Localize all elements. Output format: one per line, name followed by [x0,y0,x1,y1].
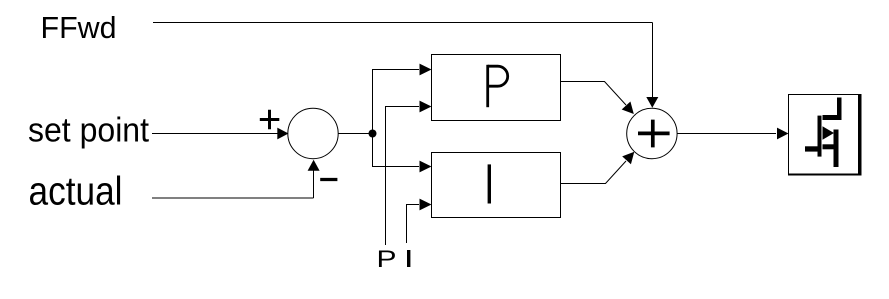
arrowhead P output into summer [622,102,638,118]
wire P output [561,82,627,106]
arrowhead into power stage [777,128,789,140]
wire FFwd horizontal [153,22,653,24]
transistor icon: gate lead [805,146,819,151]
arrowhead set point into error summer [277,128,288,140]
wire error summer output [339,133,373,135]
transistor icon: body arrow [823,126,835,139]
wire actual vertical rise [313,169,315,198]
wire branch down to I [373,134,420,167]
svg-text:P: P [377,246,397,273]
transistor icon: drain stub [837,98,842,121]
arrowhead into P input 1 [420,64,432,76]
label I gain [407,250,410,267]
transistor icon: source bar [834,130,839,168]
output summer circle [627,108,677,158]
I block letter [488,164,491,203]
wire I parameter [407,205,420,244]
P block letter [486,65,489,107]
plus sign at error summer [260,110,280,130]
arrowhead FFwd into summer [646,97,658,108]
junction dot [369,130,377,138]
svg-text:set point: set point [28,111,150,149]
minus sign at error summer [320,178,337,181]
arrowhead actual into error summer [308,160,320,171]
wire branch up to P [373,70,420,134]
wire actual horizontal [152,197,314,199]
svg-text:actual: actual [29,170,123,214]
I block [432,153,561,218]
wire summer to power stage [677,133,776,135]
arrowhead into I input 1 [420,161,432,173]
error summer circle [288,108,338,158]
transistor icon: drain bar [823,115,842,120]
svg-text:FFwd: FFwd [41,10,117,45]
arrowhead I parameter into I block [420,199,432,211]
wire P parameter [386,107,420,246]
wire set point [152,133,279,135]
wire I output [561,161,627,184]
arrowhead P parameter into P block [420,101,432,113]
power stage box [789,95,859,175]
plus sign in output summer [638,120,670,148]
transistor icon: gate plate [818,116,822,157]
P block [432,55,561,121]
arrowhead I output into summer [622,148,638,164]
wire FFwd vertical drop [652,23,654,99]
transistor icon: source stub [823,144,837,149]
